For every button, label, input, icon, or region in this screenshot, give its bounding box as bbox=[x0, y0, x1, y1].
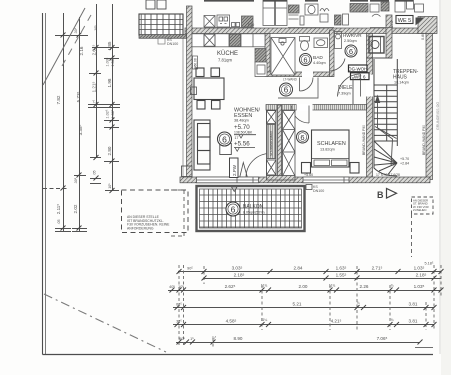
section marker B bottom bbox=[377, 189, 397, 201]
svg-text:2.11⁵: 2.11⁵ bbox=[56, 204, 61, 215]
svg-text:+5.56: +5.56 bbox=[234, 141, 250, 148]
KÜCHE label bbox=[217, 50, 238, 63]
dim row texts bbox=[169, 262, 434, 342]
svg-text:1.03⁵: 1.03⁵ bbox=[106, 57, 110, 66]
svg-text:.17⁵: .17⁵ bbox=[93, 99, 97, 106]
living circled 6 with tag bbox=[220, 144, 232, 155]
svg-text:11¾: 11¾ bbox=[261, 284, 268, 288]
svg-text:5.73⁵: 5.73⁵ bbox=[76, 91, 81, 102]
dim row vertical connectors dashed bbox=[179, 265, 441, 348]
svg-text:.05: .05 bbox=[93, 171, 97, 176]
note box right dashed bbox=[412, 197, 434, 214]
section marker B top (dark wedge) bbox=[416, 18, 425, 26]
svg-text:2.84: 2.84 bbox=[294, 266, 303, 271]
balcony door big swing arc bbox=[246, 154, 270, 178]
neighbour wc dark box bbox=[289, 5, 300, 13]
dim row tick slashes bbox=[170, 269, 444, 345]
svg-text:10⁵: 10⁵ bbox=[94, 25, 98, 31]
svg-text:.30⁵: .30⁵ bbox=[74, 177, 78, 184]
svg-text:DN100: DN100 bbox=[167, 42, 178, 46]
stair treads upper flight bbox=[374, 85, 397, 141]
svg-text:17: 17 bbox=[235, 136, 239, 140]
bath right / hwr left wall bbox=[330, 30, 335, 77]
svg-text:1.03⁵: 1.03⁵ bbox=[414, 284, 425, 289]
shower head bbox=[279, 39, 286, 43]
svg-text:40⁵: 40⁵ bbox=[169, 285, 175, 289]
neighbour counter base line bbox=[204, 27, 392, 29]
stair winder outer edge bbox=[374, 141, 397, 176]
KS DN100 label right of balcony bbox=[306, 185, 312, 190]
BAD label bbox=[313, 55, 326, 65]
OG-WOH dark label bbox=[348, 65, 367, 72]
dim crossbar y35 bbox=[55, 35, 88, 37]
neighbour small squares bbox=[232, 23, 236, 27]
svg-text:17 STG 17.6/28: 17 STG 17.6/28 bbox=[376, 173, 400, 177]
balcony outer rail bbox=[197, 186, 305, 231]
kitchen counter dividers bbox=[204, 34, 253, 47]
svg-text:1.98: 1.98 bbox=[107, 78, 112, 87]
nightstand left bbox=[302, 163, 311, 174]
WOHNEN/ESSEN labels bbox=[234, 108, 261, 123]
balcony top-left grid bbox=[139, 14, 187, 38]
svg-text:F30: F30 bbox=[248, 23, 254, 27]
svg-text:¾: ¾ bbox=[391, 318, 394, 322]
neighbour toilet bbox=[305, 4, 318, 15]
svg-text:BRAND-WAND F90: BRAND-WAND F90 bbox=[422, 125, 426, 155]
dim crossbar y47 bbox=[92, 47, 119, 49]
stair top landing line bbox=[367, 57, 393, 59]
svg-text:0.80: 0.80 bbox=[421, 33, 425, 40]
kitchen fridge dark bbox=[255, 49, 266, 63]
stairwell left wall entry door gap bbox=[366, 75, 373, 97]
hwr washing machine bbox=[335, 32, 342, 49]
hwr right wall bbox=[386, 15, 392, 58]
svg-text:3.03⁵: 3.03⁵ bbox=[232, 266, 243, 271]
planter boxes top edge bbox=[146, 0, 155, 9]
dim row C bbox=[173, 307, 434, 309]
svg-text:37⁵: 37⁵ bbox=[176, 320, 182, 324]
right exterior wall bbox=[426, 34, 433, 180]
neighbour kitchen sink bbox=[217, 15, 230, 27]
neighbour boxes top right bbox=[395, 0, 405, 12]
svg-text:SCHRANKWAND: SCHRANKWAND bbox=[270, 130, 274, 156]
living/diele divider L line bbox=[278, 78, 318, 99]
dim row A bbox=[178, 271, 441, 273]
dim end cross x63 y228 bbox=[55, 228, 71, 230]
svg-text:2.50qm: 2.50qm bbox=[344, 39, 357, 43]
short faint line bottom right bbox=[415, 347, 433, 349]
svg-text:6: 6 bbox=[303, 55, 307, 64]
svg-text:3.35⁵: 3.35⁵ bbox=[78, 124, 83, 135]
svg-text:8.90: 8.90 bbox=[234, 336, 243, 341]
svg-text:BRAND-WAND F90: BRAND-WAND F90 bbox=[362, 125, 366, 155]
svg-text:1.38⁵: 1.38⁵ bbox=[111, 109, 115, 118]
wardrobe left column bbox=[267, 111, 277, 176]
top right corner wall block bbox=[418, 17, 437, 34]
svg-text:+5.60: +5.60 bbox=[304, 173, 313, 177]
bedroom window opening bbox=[303, 177, 349, 183]
svg-text:1.85: 1.85 bbox=[107, 41, 112, 50]
neighbour bidet curve bbox=[320, 9, 329, 12]
svg-text:WE 5: WE 5 bbox=[398, 18, 411, 24]
svg-text:ZUSEHEN: ZUSEHEN bbox=[413, 208, 426, 212]
door swing V bbox=[240, 163, 248, 178]
svg-text:60⁵: 60⁵ bbox=[179, 337, 185, 341]
svg-text:6: 6 bbox=[349, 47, 353, 56]
svg-text:B60.08: B60.08 bbox=[194, 58, 198, 68]
svg-text:HWR/VR: HWR/VR bbox=[343, 33, 362, 38]
kitchen counter row bbox=[192, 34, 265, 47]
kitchen hatched appliance bbox=[230, 34, 241, 46]
dim crossbar y73 bbox=[89, 73, 101, 75]
dim row E bbox=[176, 342, 420, 344]
scan page right edge strip bbox=[441, 0, 451, 375]
svg-text:1⁵: 1⁵ bbox=[190, 337, 194, 341]
svg-text:¼⁵: ¼⁵ bbox=[212, 336, 217, 340]
dim crossbar y120 bbox=[104, 120, 119, 122]
svg-text:3.81: 3.81 bbox=[409, 319, 418, 324]
stair shaft box top bbox=[369, 37, 384, 54]
dim crossbar y188 dashed bbox=[43, 188, 68, 190]
svg-text:7.82: 7.82 bbox=[56, 95, 61, 104]
svg-text:SCHLAFEN: SCHLAFEN bbox=[317, 141, 346, 147]
neighbour tall cupboards bbox=[263, 0, 275, 26]
hwr circled 6 bbox=[345, 45, 357, 57]
svg-text:8.05qm(50%): 8.05qm(50%) bbox=[243, 211, 265, 215]
sofa bbox=[194, 120, 210, 170]
stair winder treads fan bbox=[374, 141, 397, 175]
bath door arc bbox=[300, 78, 314, 92]
svg-text:DN100: DN100 bbox=[313, 189, 324, 193]
frame right faint border bbox=[439, 0, 441, 354]
svg-text:7.81qm: 7.81qm bbox=[218, 58, 232, 63]
svg-text:.30⁵: .30⁵ bbox=[74, 27, 78, 34]
svg-text:4.58⁵: 4.58⁵ bbox=[226, 319, 237, 324]
svg-text:7.39qm: 7.39qm bbox=[338, 92, 351, 96]
living balcony door+window opening bbox=[197, 177, 259, 183]
dim row D bbox=[173, 324, 434, 326]
top main wall bbox=[185, 28, 434, 34]
svg-text:+2.84: +2.84 bbox=[400, 162, 409, 166]
bath bottom wall door gap bbox=[302, 71, 313, 77]
stair flight side rails bbox=[373, 59, 375, 141]
+5.56 level mark bbox=[234, 141, 255, 152]
svg-text:7.06⁵: 7.06⁵ bbox=[377, 336, 388, 341]
dim chain vertical x112 bbox=[112, 4, 114, 191]
dashed vertical below right note box bbox=[411, 214, 413, 257]
stairwell left wall bbox=[367, 34, 373, 180]
top edge cut-off content marks bbox=[204, 0, 413, 2]
corridor circled 6 bbox=[280, 83, 293, 96]
bath circled 6 bbox=[300, 54, 312, 66]
dash-dot diagonal bottom left bbox=[44, 294, 166, 352]
bed bbox=[312, 130, 350, 167]
wc toilet bbox=[300, 37, 310, 42]
radiator small box on left wall bbox=[191, 87, 197, 95]
svg-text:1.03⁵: 1.03⁵ bbox=[414, 266, 425, 271]
svg-text:38.48qm: 38.48qm bbox=[234, 119, 249, 123]
dim chain vertical x96 bbox=[96, 4, 98, 158]
svg-text:4.21⁵: 4.21⁵ bbox=[331, 319, 342, 324]
neighbour dark label box bbox=[350, 4, 368, 13]
rotated dim texts left chains bbox=[56, 25, 115, 225]
dim crossbar cluster y174-184 bbox=[74, 175, 86, 177]
svg-text:2.16: 2.16 bbox=[79, 46, 84, 55]
KS DN100 label top balcony bbox=[167, 38, 178, 46]
svg-text:67⁵: 67⁵ bbox=[176, 303, 182, 307]
svg-text:OG-WOH: OG-WOH bbox=[348, 67, 367, 72]
wardrobe right column bbox=[283, 111, 296, 177]
dining table bbox=[194, 78, 224, 100]
BALKON label bbox=[243, 204, 265, 215]
entry door arc bbox=[338, 74, 361, 97]
dim end cross x79 y228 bbox=[72, 228, 87, 230]
wc washbasin bbox=[314, 38, 328, 48]
svg-text:10⁵: 10⁵ bbox=[108, 183, 112, 189]
dining chairs top bbox=[196, 68, 204, 77]
dim end cross x112 y190 bbox=[105, 190, 119, 192]
svg-text:18.14qm: 18.14qm bbox=[394, 81, 409, 85]
svg-text:6: 6 bbox=[222, 134, 227, 144]
roof slope diagonal D1 bbox=[43, 8, 85, 85]
stair diagonal walk segment bbox=[375, 127, 397, 139]
dim crossbar y158 bbox=[90, 157, 101, 159]
svg-text:2.18⁵: 2.18⁵ bbox=[416, 273, 427, 278]
svg-text:6: 6 bbox=[231, 204, 236, 214]
nightstand right bbox=[350, 163, 359, 174]
bedroom circled 6 bbox=[297, 131, 309, 143]
svg-text:ANFORDERUNG: ANFORDERUNG bbox=[127, 226, 154, 230]
hwr door arc bbox=[330, 59, 346, 72]
svg-text:138.50/ÜBK: 138.50/ÜBK bbox=[234, 131, 253, 135]
dim crossbar y105 double bbox=[88, 104, 120, 106]
stair walk-line arrow bbox=[375, 96, 394, 165]
neighbour kitchen X-box bbox=[204, 16, 215, 28]
side shelf bottom left bbox=[182, 166, 193, 177]
stair level texts bbox=[400, 157, 409, 166]
svg-text:5.18⁵: 5.18⁵ bbox=[425, 262, 434, 266]
left wall outer face lines bbox=[182, 36, 184, 178]
shower tray bbox=[271, 38, 295, 76]
+5.70 level mark bbox=[234, 124, 256, 140]
svg-text:2.61⁵: 2.61⁵ bbox=[92, 44, 97, 55]
diele closet edge line bbox=[352, 77, 354, 104]
svg-text:KÜCHE: KÜCHE bbox=[217, 50, 238, 57]
balcony bottom rail hatched bbox=[139, 35, 187, 39]
bedroom top wall bbox=[266, 105, 367, 111]
frame left double border bbox=[42, 13, 44, 355]
drain triangle bbox=[232, 187, 238, 192]
neighbour hatched appliance bbox=[242, 16, 254, 27]
bottom main wall band bbox=[180, 177, 430, 183]
svg-text:2.FW: 2.FW bbox=[232, 164, 237, 176]
svg-text:2.00: 2.00 bbox=[299, 284, 308, 289]
note box left dashed bbox=[122, 190, 189, 233]
kitchen-bath wall bbox=[265, 34, 270, 77]
svg-text:LT-WAND: LT-WAND bbox=[283, 78, 298, 82]
neighbour mid fixtures fill-ins bbox=[300, 16, 304, 25]
B60 DN100 rotated tiny label at wall bbox=[193, 56, 198, 69]
bedroom door arc bbox=[292, 106, 310, 124]
left exterior wall bbox=[187, 6, 193, 179]
roof slope diagonal D2 dashed bbox=[62, 15, 91, 66]
svg-text:90⁵: 90⁵ bbox=[187, 267, 193, 271]
svg-text:2.80: 2.80 bbox=[107, 146, 112, 155]
svg-text:1.63⁵: 1.63⁵ bbox=[336, 266, 347, 271]
svg-text:4.40qm: 4.40qm bbox=[313, 61, 326, 65]
svg-text:2.62⁵: 2.62⁵ bbox=[225, 284, 236, 289]
svg-text:10⁵: 10⁵ bbox=[178, 285, 184, 289]
balcony grid bbox=[200, 189, 302, 228]
frame bottom border bbox=[43, 354, 434, 356]
svg-text:+5.70: +5.70 bbox=[400, 157, 409, 161]
kitchen base unit bbox=[255, 62, 267, 77]
kitchen stove X-box bbox=[204, 34, 215, 46]
svg-text:2.26: 2.26 bbox=[360, 284, 369, 289]
neighbour door arc bbox=[372, 14, 381, 16]
svg-text:5.21: 5.21 bbox=[293, 302, 302, 307]
svg-text:6: 6 bbox=[300, 133, 304, 142]
svg-text:B: B bbox=[377, 190, 384, 200]
svg-text:6: 6 bbox=[284, 86, 289, 95]
svg-text:¾: ¾ bbox=[391, 284, 394, 288]
bedroom top wall door gap bbox=[297, 104, 313, 111]
dim chain vertical x79 bbox=[79, 17, 81, 232]
WE 6 dark label bbox=[351, 73, 370, 81]
dining chairs bottom bbox=[197, 101, 205, 110]
svg-text:1.02⁵: 1.02⁵ bbox=[106, 109, 110, 118]
svg-text:11¼: 11¼ bbox=[261, 318, 268, 322]
svg-text:2.18⁵: 2.18⁵ bbox=[234, 273, 245, 278]
TREPPENHAUS label bbox=[393, 69, 419, 85]
svg-text:11¾: 11¾ bbox=[329, 284, 336, 288]
dim crossbar y58 bbox=[104, 58, 119, 60]
svg-text:BALKON: BALKON bbox=[243, 204, 264, 210]
svg-text:3.81: 3.81 bbox=[409, 302, 418, 307]
dim crossbar y127 bbox=[104, 127, 119, 129]
dim tick slashes left chains bbox=[61, 33, 115, 231]
dim row A2 bbox=[204, 278, 441, 280]
svg-text:1.70: 1.70 bbox=[390, 21, 394, 28]
WE 5 label box bbox=[396, 16, 413, 24]
SCHLAFEN label bbox=[317, 141, 346, 152]
2.FW escape label bbox=[230, 158, 239, 178]
svg-text:¾: ¾ bbox=[357, 301, 360, 305]
dim chain vertical x63 bbox=[63, 13, 65, 232]
svg-text:.05: .05 bbox=[57, 220, 61, 225]
svg-text:2.71⁵: 2.71⁵ bbox=[372, 266, 383, 271]
svg-text:13.82qm: 13.82qm bbox=[320, 148, 335, 152]
wardrobe bottom band bbox=[267, 176, 296, 181]
svg-text:1.21⁵: 1.21⁵ bbox=[92, 81, 97, 92]
wardrobe middle wall bbox=[278, 105, 282, 180]
dashed continuation left of balcony bbox=[183, 190, 185, 236]
svg-text:1.55⁵: 1.55⁵ bbox=[336, 273, 347, 278]
dim row B bbox=[168, 290, 441, 292]
balcony circled 6 bbox=[226, 202, 240, 216]
bath bottom wall bbox=[265, 72, 333, 77]
svg-text:GRUNDRISS OG: GRUNDRISS OG bbox=[436, 102, 440, 130]
svg-text:1.58⁵: 1.58⁵ bbox=[111, 57, 115, 66]
svg-text:WE 6: WE 6 bbox=[354, 74, 366, 80]
svg-text:2.02: 2.02 bbox=[73, 204, 78, 213]
